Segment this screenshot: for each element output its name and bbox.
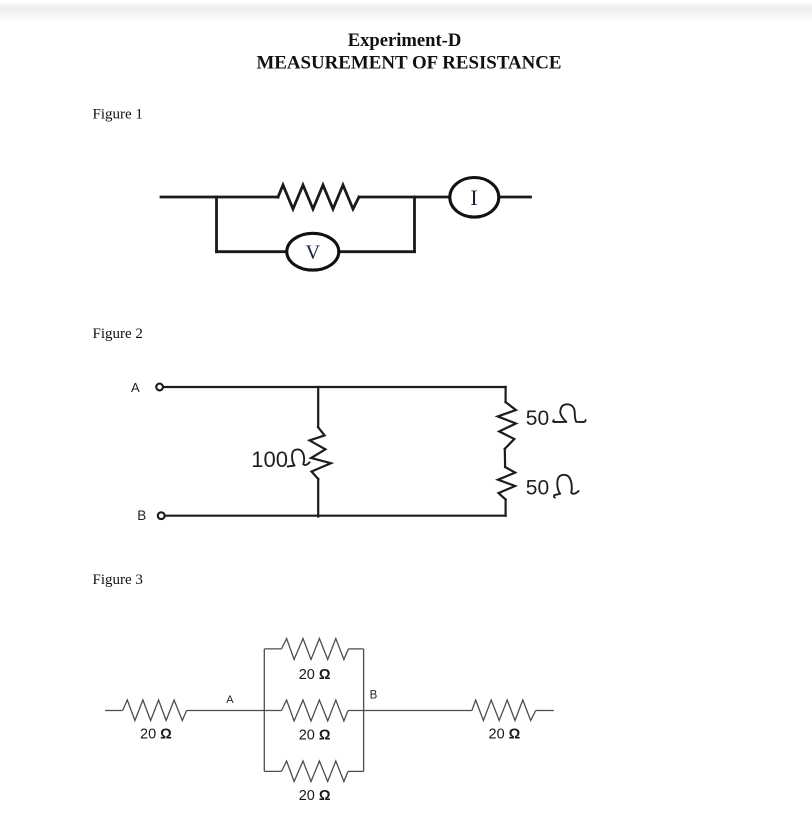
resistor 20 ohm bottom branch xyxy=(282,761,349,782)
voltmeter V1 circle xyxy=(287,233,339,270)
wire: middle branch bottom xyxy=(317,479,319,517)
svg-text:20 Ω: 20 Ω xyxy=(299,667,331,683)
wire: far left lead xyxy=(105,710,123,712)
terminal A xyxy=(156,384,163,391)
svg-text:50: 50 xyxy=(526,407,549,430)
wire: left vertical branch xyxy=(215,197,218,252)
wire: bottom branch left stub xyxy=(264,770,281,772)
wire: node A segment xyxy=(187,710,282,712)
wire: ammeter right lead xyxy=(499,196,531,199)
svg-text:50: 50 xyxy=(526,477,549,500)
wire: right vertical branch xyxy=(413,197,416,252)
wire: right branch bottom xyxy=(505,500,507,516)
ammeter A1 circle xyxy=(450,178,499,218)
value label omega upper xyxy=(553,404,586,422)
svg-text:Figure 2: Figure 2 xyxy=(93,326,143,342)
svg-text:B: B xyxy=(137,508,146,523)
wire: resistor to ammeter xyxy=(359,196,450,199)
wire: middle branch top xyxy=(317,387,319,427)
wire: bottom branch right stub xyxy=(348,770,364,772)
terminal B xyxy=(158,512,165,519)
wire: right branch middle xyxy=(504,449,507,467)
wire: top branch right stub xyxy=(348,648,363,650)
wire: bottom rail B xyxy=(165,515,506,517)
resistor 100 ohm (vertical zigzag) xyxy=(310,427,331,479)
parallel box left vertical xyxy=(263,649,265,772)
wire: main left lead xyxy=(161,196,278,199)
resistor 20 ohm middle branch xyxy=(282,700,349,721)
svg-text:I: I xyxy=(470,185,477,210)
svg-text:100: 100 xyxy=(251,447,288,472)
resistor 20 ohm series right xyxy=(472,700,536,721)
svg-text:Experiment-D: Experiment-D xyxy=(348,30,462,51)
svg-text:MEASUREMENT OF RESISTANCE: MEASUREMENT OF RESISTANCE xyxy=(256,52,561,73)
resistor 50 ohm upper (vertical zigzag) xyxy=(498,402,516,449)
wire: top branch left stub xyxy=(264,648,281,650)
Figure 1 schematic xyxy=(161,185,531,252)
resistor 50 ohm lower (vertical zigzag) xyxy=(498,467,515,500)
svg-text:A: A xyxy=(131,380,140,395)
svg-text:Figure 3: Figure 3 xyxy=(93,572,143,588)
svg-text:20 Ω: 20 Ω xyxy=(140,727,172,743)
resistor R (zigzag) xyxy=(278,185,359,209)
wire: top rail A xyxy=(164,386,506,388)
svg-text:20 Ω: 20 Ω xyxy=(489,727,521,743)
wire: middle branch to B xyxy=(348,710,472,712)
wire: bottom left to voltmeter xyxy=(217,250,288,253)
wire: right branch top xyxy=(505,387,507,402)
svg-text:20 Ω: 20 Ω xyxy=(299,728,331,744)
svg-text:A: A xyxy=(226,694,234,706)
svg-text:B: B xyxy=(370,690,378,702)
svg-text:20 Ω: 20 Ω xyxy=(299,788,331,804)
parallel box right vertical xyxy=(363,649,365,772)
value label omega lower xyxy=(554,475,579,498)
wire: voltmeter to right vertical xyxy=(339,250,415,253)
svg-text:Figure 1: Figure 1 xyxy=(93,107,143,123)
value label omega for 100 xyxy=(288,449,310,466)
wire: far right lead xyxy=(536,710,554,712)
resistor 20 ohm top branch xyxy=(282,639,349,660)
svg-text:V: V xyxy=(306,242,321,264)
resistor 20 ohm series left xyxy=(123,700,187,721)
